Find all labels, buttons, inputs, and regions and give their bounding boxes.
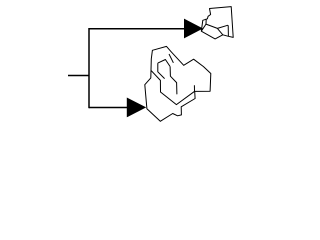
bottom shape inner diagonal upper right — [169, 54, 173, 63]
bottom 3D shape outline — [145, 46, 211, 121]
wire root stub — [68, 75, 89, 77]
bottom shape inner middle step — [170, 66, 177, 94]
top 3D shape outline — [201, 7, 233, 39]
wire vertical trunk — [88, 28, 90, 108]
wire top branch — [89, 28, 185, 30]
top shape inner cube edges — [201, 19, 228, 36]
bottom shape inner long polyline — [151, 70, 195, 104]
arrowhead top — [184, 19, 203, 39]
arrowhead bottom — [127, 98, 146, 118]
wire bottom branch — [89, 107, 128, 109]
bottom shape inner notch tick — [193, 85, 195, 91]
bottom shape inner parallelogram — [158, 60, 170, 79]
